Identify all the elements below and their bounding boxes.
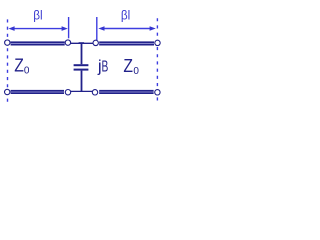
terminal port1 bottom <box>5 89 10 94</box>
svg-text:0: 0 <box>24 65 30 76</box>
terminal port1 top <box>5 40 10 45</box>
wire bottom middle <box>70 90 92 92</box>
dimension line betal left <box>14 28 64 30</box>
node junction right top <box>93 40 98 45</box>
node junction left top <box>65 40 70 45</box>
arrowhead left-pointing at right tick <box>98 26 104 31</box>
transmission line TL2 bottom conductor (double line) <box>99 90 153 94</box>
capacitor stem bottom <box>81 71 83 92</box>
capacitor stem top <box>81 43 83 64</box>
svg-text:Z: Z <box>14 56 24 76</box>
arrowhead right-pointing at right dashed line <box>150 26 156 31</box>
svg-text:Z: Z <box>123 56 133 76</box>
transmission line TL1 top conductor (double line) <box>11 41 65 45</box>
transmission line TL2 top conductor (double line) <box>99 41 154 45</box>
wire top middle <box>70 42 93 44</box>
extension tick left (junction) <box>68 17 70 38</box>
node junction right bottom <box>92 90 97 95</box>
capacitor jB top plate <box>74 64 89 66</box>
transmission line TL1 bottom conductor (double line) <box>11 90 64 94</box>
svg-text:βl: βl <box>33 7 42 22</box>
svg-text:B: B <box>102 58 109 75</box>
junction tee top <box>79 42 85 44</box>
reference plane dashed line right <box>156 18 158 101</box>
capacitor jB bottom plate <box>74 69 89 71</box>
terminal port2 top <box>155 40 160 45</box>
node junction left bottom <box>65 90 70 95</box>
arrowhead left-pointing at left dashed line <box>8 26 14 31</box>
reference plane dashed line left <box>7 19 9 102</box>
dimension line betal right <box>104 28 151 30</box>
svg-text:0: 0 <box>133 66 139 77</box>
extension tick right (junction) <box>96 17 98 40</box>
arrowhead right-pointing at left tick <box>62 26 68 31</box>
terminal port2 bottom <box>155 90 160 95</box>
svg-text:βl: βl <box>121 7 130 22</box>
